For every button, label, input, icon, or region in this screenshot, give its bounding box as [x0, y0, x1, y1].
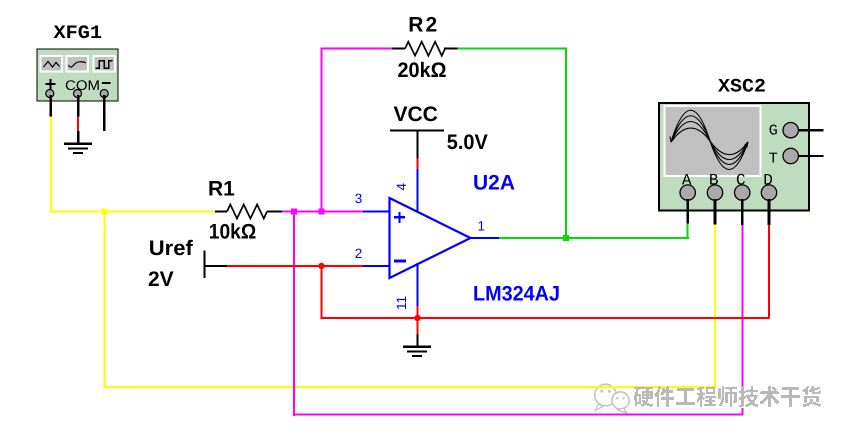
- wire green: R2 right horizontal: [457, 48, 566, 50]
- svg-text:VCC: VCC: [394, 103, 438, 126]
- svg-text:2: 2: [426, 14, 438, 37]
- wire black: scope B stub: [714, 199, 717, 225]
- svg-text:1: 1: [478, 219, 486, 234]
- wire red: bottom red bus to scope D: [321, 317, 770, 319]
- svg-text:4: 4: [394, 183, 409, 191]
- svg-text:5.0V: 5.0V: [447, 131, 488, 154]
- wire red: junction down to bottom red bus: [321, 266, 323, 318]
- node red junction at pin11 column: [414, 315, 420, 321]
- node red junction at x321: [318, 263, 324, 269]
- svg-text:T: T: [769, 151, 778, 168]
- wire magenta: junction up to R2: [321, 48, 323, 211]
- node magenta junction at x321: [319, 209, 325, 215]
- pin label 2: [355, 246, 363, 261]
- wire magenta: up to scope C stub: [742, 224, 744, 415]
- wire magenta: down from junction to bottom bus: [293, 212, 295, 416]
- svg-text:2V: 2V: [148, 268, 174, 291]
- oscilloscope XSC2: [659, 76, 824, 211]
- wire magenta: R1 right to op-amp pin3: [282, 211, 365, 213]
- ground below op-amp: [403, 346, 431, 358]
- resistor R2: [392, 14, 458, 82]
- pin label 1: [478, 219, 486, 234]
- pin label 4: [394, 183, 409, 191]
- wire black: pin11 to ground: [417, 335, 419, 348]
- wire yellow: junction down to bottom bus: [104, 212, 106, 388]
- op-amp U2A: [390, 198, 471, 278]
- wire red: XFG1 COM segment: [77, 117, 79, 132]
- wire black: scope C stub: [741, 199, 744, 225]
- wire red: Uref to op-amp pin2: [226, 265, 364, 267]
- svg-text:11: 11: [394, 296, 409, 310]
- pin 1 lead: [469, 237, 499, 239]
- wire green: up to scope A stub: [687, 223, 689, 238]
- wire black: XFG1 plus stub: [50, 95, 53, 117]
- svg-text:R1: R1: [208, 178, 235, 201]
- wire yellow: up to scope B stub: [714, 224, 716, 387]
- svg-text:LM324AJ: LM324AJ: [473, 283, 560, 306]
- resistor R1: [208, 178, 282, 244]
- svg-text:Uref: Uref: [149, 237, 194, 260]
- wire green: down to output wire: [565, 48, 567, 239]
- svg-text:XFG1: XFG1: [54, 22, 103, 44]
- wire red: pin11 segment to ground: [417, 305, 419, 335]
- pin label 3: [355, 191, 363, 206]
- wire red: VCC segment: [417, 158, 419, 170]
- svg-text:3: 3: [355, 191, 363, 206]
- pin 2 lead: [363, 265, 390, 267]
- pin 4 lead: [417, 169, 419, 213]
- svg-text:G: G: [769, 123, 778, 140]
- label U2A: [473, 172, 515, 195]
- node green junction: [563, 235, 569, 241]
- svg-text:R: R: [408, 14, 423, 37]
- svg-text:20kΩ: 20kΩ: [398, 59, 447, 82]
- svg-text:COM: COM: [65, 77, 100, 93]
- wire magenta: bottom bus to scope C: [293, 414, 743, 416]
- wire black: scope D stub: [768, 199, 771, 225]
- node magenta junction at x294: [291, 209, 297, 215]
- watermark text: [634, 386, 822, 408]
- label LM324AJ: [473, 283, 560, 306]
- pin 11 lead: [417, 263, 419, 306]
- svg-text:2: 2: [355, 246, 363, 261]
- svg-text:XSC2: XSC2: [718, 76, 766, 98]
- watermark logo: [595, 384, 629, 413]
- wire black: XFG1 COM stub: [77, 95, 80, 117]
- function generator XFG1: [37, 22, 118, 101]
- wire yellow: XFG1 plus terminal down: [50, 115, 52, 213]
- power VCC: [390, 103, 488, 159]
- svg-text:10kΩ: 10kΩ: [209, 221, 256, 244]
- wire green: op-amp output to scope A: [498, 237, 689, 239]
- wire black: XFG1 COM to ground: [77, 131, 80, 144]
- pin 3 lead: [363, 211, 390, 213]
- wire magenta: top horizontal to R2 left: [321, 48, 393, 50]
- wire black: XFG1 minus stub: [103, 95, 106, 131]
- wire black: scope A stub: [686, 199, 689, 224]
- pin label 11: [394, 296, 409, 310]
- node yellow junction: [102, 209, 108, 215]
- wire yellow: bottom bus to scope B: [104, 386, 717, 388]
- wire red: up to scope D stub: [768, 224, 770, 318]
- svg-text:U2A: U2A: [473, 172, 515, 195]
- voltage source Uref: [148, 237, 227, 291]
- wire yellow: horizontal to R1: [50, 211, 215, 213]
- ground at XFG1: [64, 143, 92, 155]
